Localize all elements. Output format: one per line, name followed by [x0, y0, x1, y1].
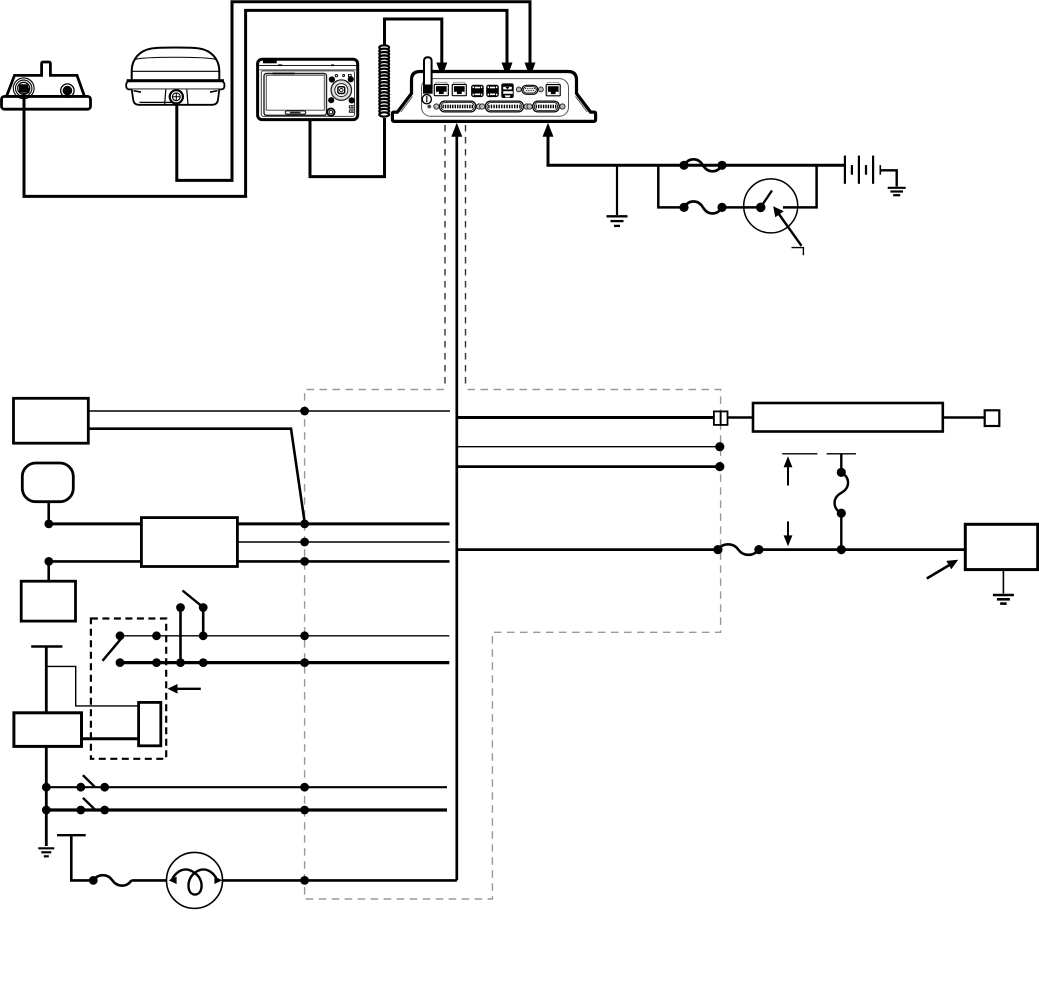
fuse F4 (right feed) [718, 544, 759, 555]
wire: harness line 9 [46, 808, 447, 811]
wire: box D stub [47, 561, 50, 581]
transducer junction box [2, 62, 91, 109]
wire: harness line 8 [46, 786, 447, 788]
unit port: DB9 serial [516, 85, 543, 94]
fuse F1 (battery branch) [684, 159, 722, 171]
wire: harness line 3 (thick) [49, 522, 450, 525]
wire: power ground stub [616, 165, 618, 215]
callout arrow into dashed accessory box [168, 684, 201, 694]
wire: box F ground stub [1002, 570, 1004, 594]
wire: box A power line (diagonal join) [87, 429, 305, 522]
junction dots (lamp circuit) [89, 876, 309, 885]
lamp / sounder symbol [167, 852, 223, 908]
unit port: network RJ45 #1 [434, 82, 449, 96]
arrowhead into unit port (chartplotter cable) [436, 63, 447, 78]
arrowhead into unit bottom (harness trunk) [451, 123, 462, 137]
unit port: accessory socket #2 [486, 85, 499, 97]
device box F (right) [965, 524, 1037, 569]
bypass switch blade [183, 591, 204, 608]
wire: T-bar to box E [45, 647, 48, 713]
unit port: accessory socket #1 [471, 85, 484, 97]
wire: transducer cable [24, 10, 507, 196]
wire: fuse to lamp [132, 879, 168, 882]
inline device box C [141, 518, 237, 567]
device box E [14, 713, 82, 747]
arrowhead into unit port (GPS cable) [525, 63, 536, 78]
vertical fuse drop (with squiggle) [835, 454, 849, 550]
fuse F2 (ignition branch) [684, 201, 722, 213]
device box D [21, 581, 75, 621]
wire: bypass right post [202, 608, 205, 636]
callout arrow to box F [927, 560, 958, 579]
wire: ignition switch to battery [783, 165, 817, 207]
unit port: DB25 #1 [434, 101, 482, 112]
wire: harness line 1 right (thick) [457, 416, 714, 419]
unit port: network RJ45 #3 [546, 82, 561, 96]
relay coil box [139, 702, 161, 745]
unit wireless antenna [422, 57, 432, 104]
height reference tick bars [782, 453, 856, 455]
ground symbol (box F) [993, 595, 1014, 604]
wire: bypass left post [179, 608, 182, 663]
switch on line 8 [83, 775, 95, 786]
antenna terminal square [985, 410, 1000, 426]
wire: harness line 3 right (thick) [457, 465, 721, 468]
wire: horn stub [47, 502, 50, 524]
marine processor unit body [392, 72, 595, 122]
wire: chartplotter cable (lower run) [310, 118, 385, 177]
unit port: network RJ45 #2 [452, 82, 467, 96]
wire: fuse F2 to ignition switch [722, 206, 756, 209]
wire: lamp feed [71, 835, 93, 880]
vertical fuse terminals [837, 468, 846, 554]
dimension double-arrow [784, 456, 793, 546]
unit port: DB25 #2 [480, 101, 530, 112]
coiled section of chartplotter cable [379, 45, 389, 116]
dashed harness lead B from unit [465, 125, 467, 386]
dashed wiring-harness boundary box [305, 390, 721, 900]
wire: fused branch vertical [658, 165, 684, 207]
ground symbol (switch stem) [38, 848, 54, 856]
antenna coupler (long inline box) [753, 403, 943, 432]
junction dots (lines 8/9) [42, 783, 309, 815]
wire: harness line 4 (thin, right of box C) [237, 541, 449, 543]
ground symbol (power lead) [607, 216, 628, 226]
wire: relay power (thick) [82, 737, 139, 740]
fuse F1 terminals [679, 161, 726, 170]
wire: connector to antenna coupler [728, 416, 754, 418]
wire: harness line 7 (thick) [120, 661, 449, 664]
fuse F3 (lamp circuit) [93, 875, 131, 886]
wire: coupler tail [943, 416, 985, 418]
harness line end dots [715, 442, 724, 471]
unit port: DB15 [527, 101, 565, 112]
wire: harness line 5 [49, 560, 450, 563]
power T-bar (lamp circuit) [57, 834, 86, 836]
arrowhead into unit bottom (power lead) [543, 123, 554, 137]
wire: unit power lead [548, 136, 844, 165]
ignition switch [744, 179, 798, 233]
power T-bar (above box E) [31, 645, 62, 647]
wire: chartplotter cable (upper run) [385, 19, 442, 63]
inline connector pair [714, 411, 728, 425]
battery [845, 156, 880, 184]
wire: relay coil feed (thin) [46, 666, 138, 706]
fuse F4 terminals [713, 545, 763, 554]
dashed harness lead A from unit [444, 125, 446, 386]
ground symbol (battery) [888, 188, 906, 195]
arrowhead into unit port (transducer cable) [502, 63, 513, 78]
wire: box A signal line [87, 410, 450, 412]
horn / alarm rounded box [22, 463, 73, 502]
wire: lamp to trunk [223, 879, 457, 882]
callout leader (ignition switch) [773, 206, 803, 255]
wire: harness line bottom right [457, 548, 718, 551]
unit port: stacked USB connector [501, 83, 513, 98]
wire: box E to ground stem [45, 746, 48, 846]
chartplotter display unit [258, 59, 358, 119]
wire: harness line 2 right (thin) [457, 446, 721, 448]
junction dots (boxes A-D lines) [44, 407, 309, 566]
wire: fuse F4 to box F [759, 548, 965, 551]
unit chassis screw [427, 105, 431, 109]
GPS antenna dome [126, 48, 224, 105]
fuse F2 terminals [679, 203, 726, 212]
wire: battery negative to ground [880, 170, 896, 186]
wire: main harness trunk [455, 136, 458, 880]
junction dots (lines 6/7) [116, 603, 309, 667]
wire: GPS antenna cable [177, 2, 530, 181]
lanyard stop switch blade (in dashed box) [103, 639, 122, 661]
wire: harness line 6 (thin) [120, 635, 449, 637]
switch on line 9 [83, 798, 95, 809]
dashed accessory box [91, 619, 166, 759]
